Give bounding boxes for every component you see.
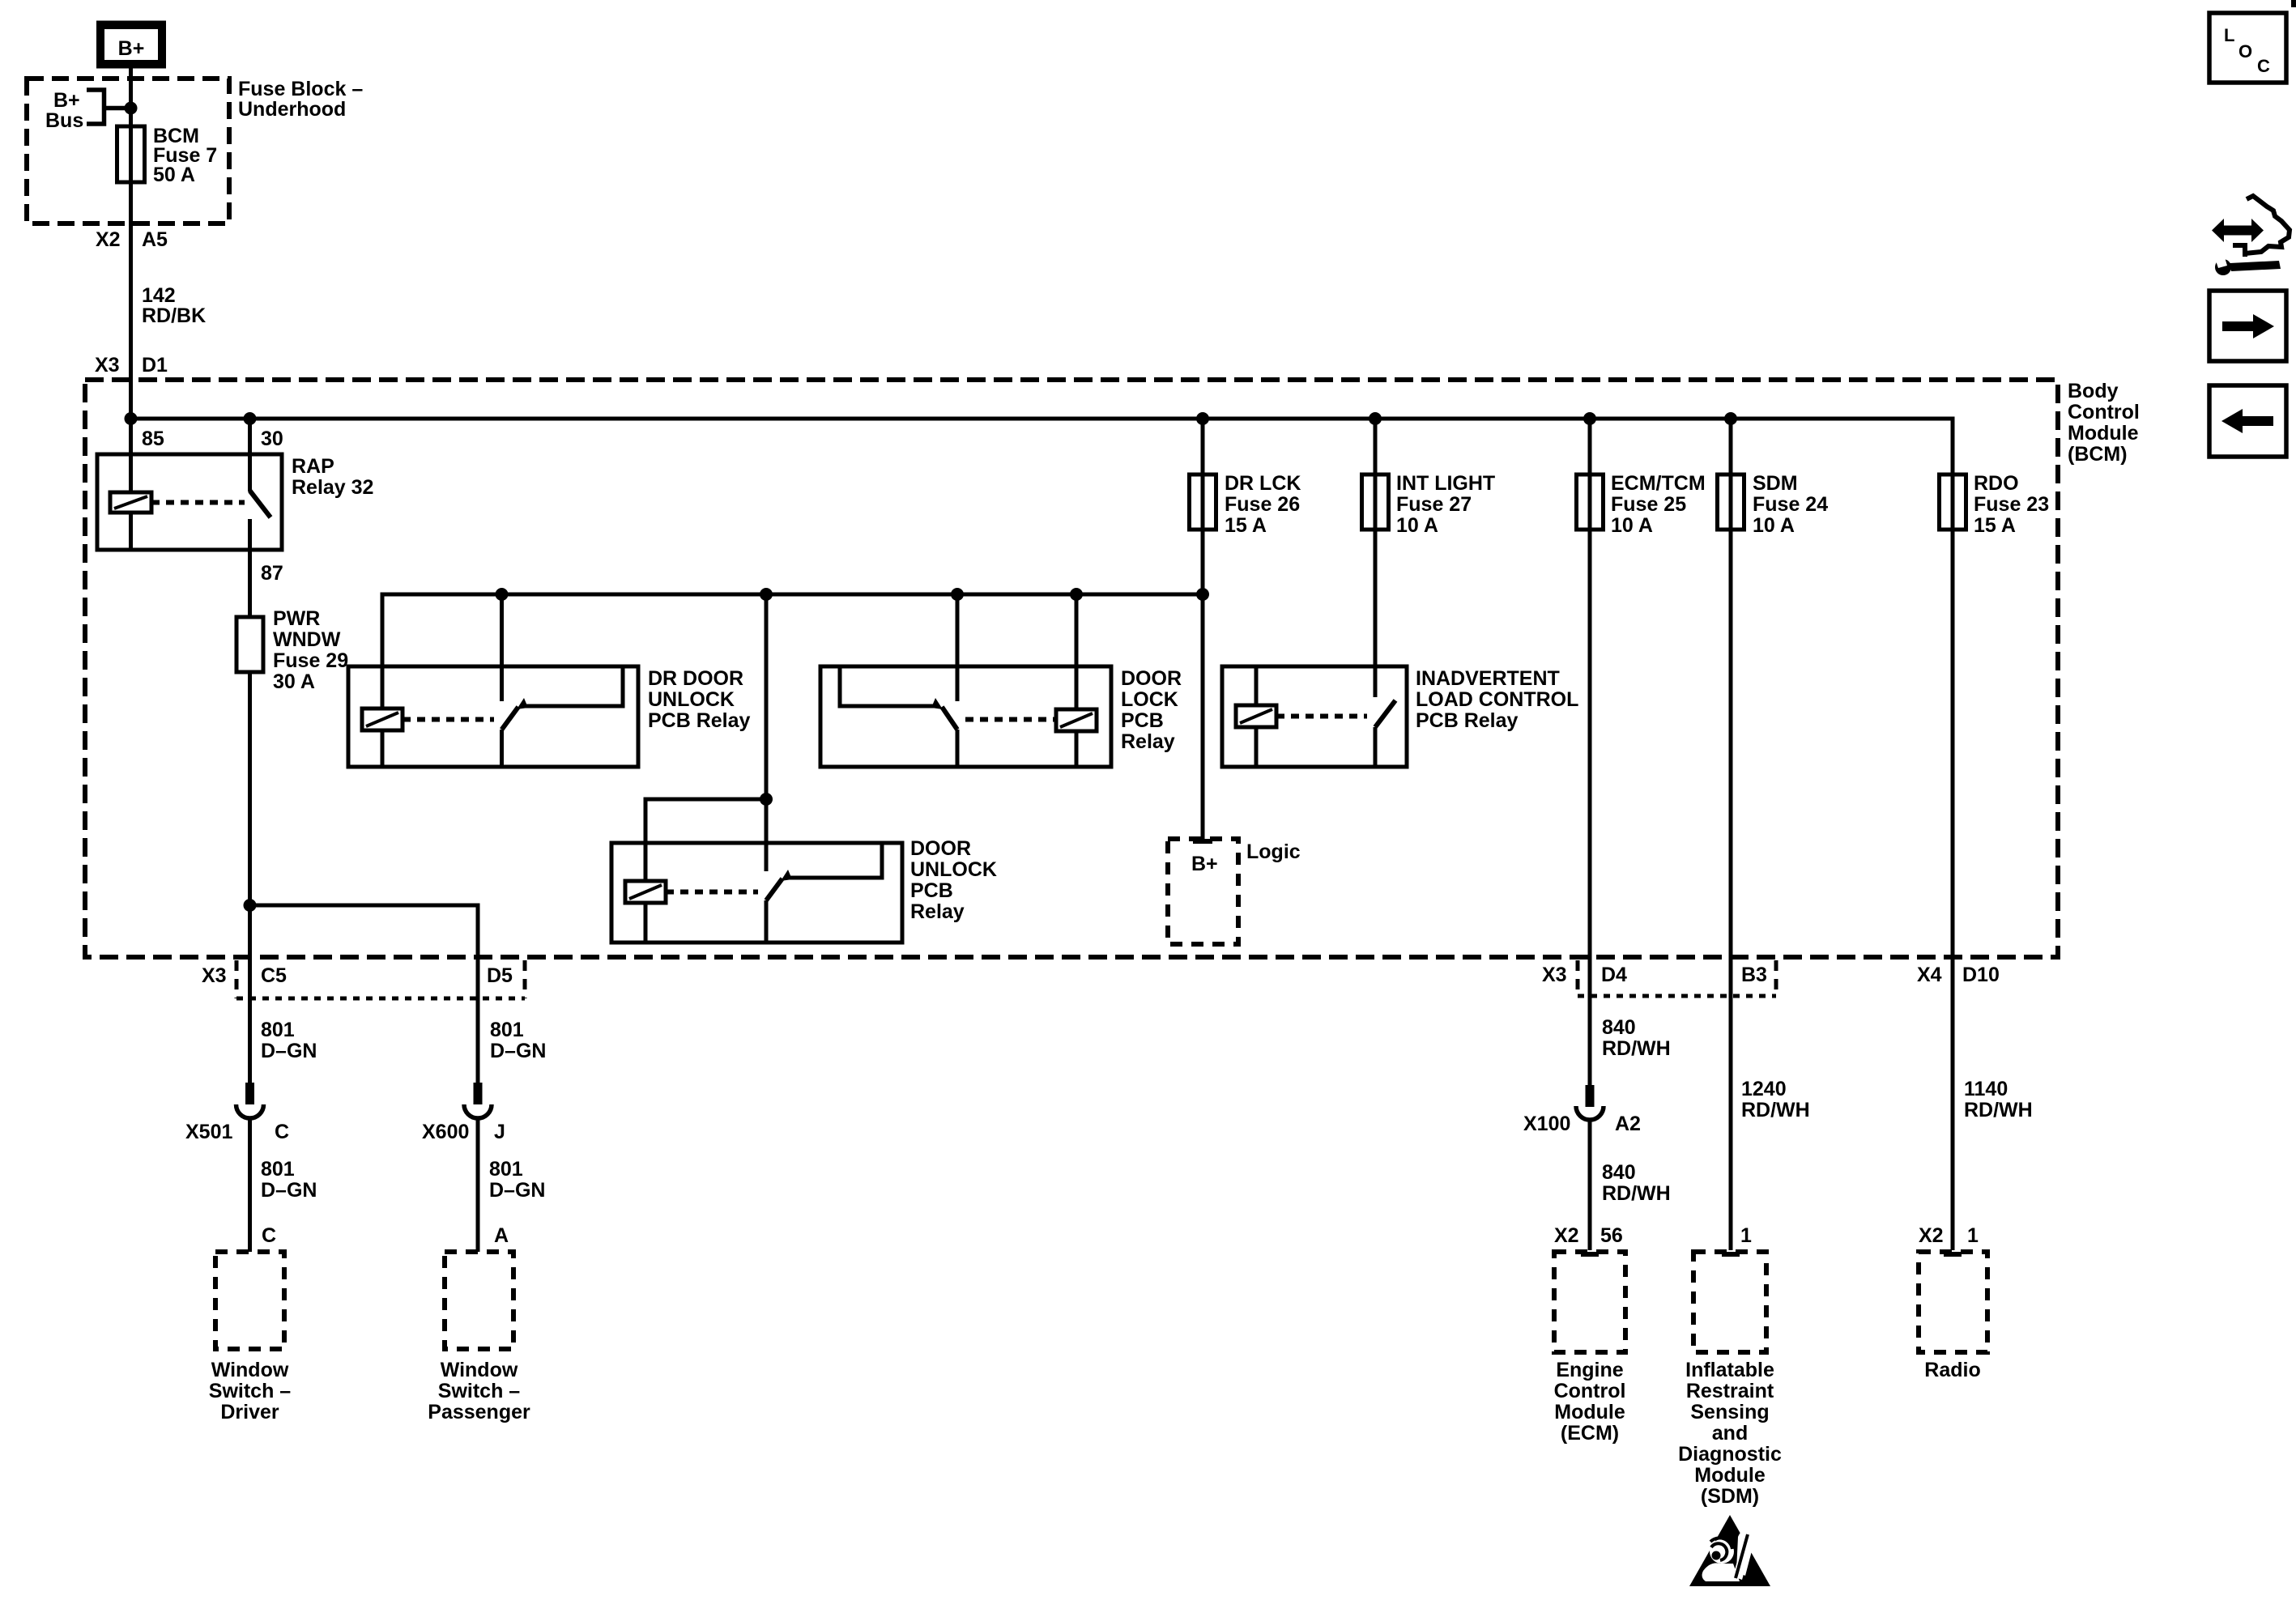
svg-text:Window: Window [211,1359,289,1381]
wire elbow to DOOR UNLOCK coil [645,799,766,881]
wire 142 RD/BK label [142,284,206,327]
node B+ Bus bracket [45,89,131,132]
relay K4 DOOR UNLOCK PCB Relay [611,837,997,943]
coil of DOOR LOCK relay [1056,594,1097,767]
svg-text:Switch –: Switch – [209,1380,292,1402]
svg-text:D10: D10 [1962,964,2000,986]
switch blade with arrow DOOR LOCK [931,698,957,730]
junction split to D5 [244,899,257,912]
svg-text:1: 1 [1740,1224,1752,1247]
svg-text:D4: D4 [1601,964,1627,986]
svg-text:LOCK: LOCK [1121,688,1178,711]
svg-text:X2: X2 [1919,1224,1944,1247]
svg-text:C: C [2257,56,2270,76]
coil of DOOR UNLOCK relay [625,881,666,943]
svg-text:DR LCK: DR LCK [1225,472,1301,495]
inline connector X501 pin C [185,1083,289,1143]
dashed actuation link DR DOOR UNLOCK [403,717,494,722]
svg-text:56: 56 [1600,1224,1623,1247]
svg-text:PCB: PCB [910,879,953,902]
pin 30 wire into RAP switch [250,419,283,491]
svg-text:142: 142 [142,284,176,307]
svg-text:Relay 32: Relay 32 [292,476,373,499]
svg-text:DR DOOR: DR DOOR [648,667,743,690]
switch contact wire DR DOOR UNLOCK [500,594,504,701]
svg-text:Restraint: Restraint [1686,1380,1774,1402]
wire 801 D-GN passenger label [490,1019,546,1062]
icon arrow previous box [2209,385,2286,457]
svg-text:O: O [2238,41,2252,62]
coil of RAP relay [110,492,151,550]
svg-text:840: 840 [1602,1016,1636,1039]
fuse block underhood dashed box [27,78,363,223]
svg-text:RD/WH: RD/WH [1602,1037,1671,1060]
wire 1240 RD/WH label [1740,1078,1810,1247]
svg-text:1: 1 [1967,1224,1979,1247]
warning symbol SIR airbag triangle [1689,1515,1770,1586]
junction bus at ECM/TCM fuse [1583,412,1596,425]
coil of DR DOOR UNLOCK relay [362,709,403,767]
wire 840 RD/WH upper label [1602,1016,1671,1060]
module box Body Control Module BCM dashed outline [85,380,2140,957]
switch blade with arrow DR DOOR UNLOCK [502,698,529,730]
svg-text:Bus: Bus [45,109,83,132]
svg-text:(ECM): (ECM) [1561,1422,1619,1445]
fuse F24 SDM Fuse 24 10 A [1718,419,1829,1250]
svg-text:Control: Control [2068,401,2140,423]
svg-text:Inflatable: Inflatable [1685,1359,1774,1381]
svg-text:Fuse 26: Fuse 26 [1225,493,1300,516]
junction bus at 85 feed [125,412,138,425]
pin labels X2 A5 [96,228,168,251]
svg-text:PWR: PWR [273,607,320,630]
inline connector X600 pin J [422,1083,505,1143]
svg-text:Fuse 24: Fuse 24 [1753,493,1828,516]
power symbol B+ terminal box [96,21,166,69]
node B+ Logic dashed box [1168,839,1301,944]
svg-text:DOOR: DOOR [910,837,971,860]
svg-text:INT LIGHT: INT LIGHT [1396,472,1495,495]
pin 87 wire out of RAP [250,519,283,617]
wire 840 RD/WH lower label [1590,1120,1671,1250]
svg-text:Sensing: Sensing [1690,1401,1769,1423]
svg-text:DOOR: DOOR [1121,667,1182,690]
svg-text:840: 840 [1602,1161,1636,1184]
svg-text:B3: B3 [1741,964,1767,986]
svg-text:1240: 1240 [1741,1078,1787,1100]
svg-text:Module: Module [2068,422,2139,445]
svg-text:Radio: Radio [1924,1359,1980,1381]
svg-text:ECM/TCM: ECM/TCM [1611,472,1706,495]
relay K2 DOOR LOCK PCB Relay [820,666,1182,767]
svg-text:D–GN: D–GN [490,1040,546,1062]
fuse F7 BCM Fuse 7 50 A [117,125,218,186]
svg-text:A: A [494,1224,509,1247]
switch blade RAP [250,491,271,517]
svg-text:85: 85 [142,428,164,450]
junction sub-bus at DR LCK wire [1196,588,1209,601]
wire to window switch passenger [478,1118,545,1252]
svg-text:D–GN: D–GN [261,1040,317,1062]
svg-text:Driver: Driver [220,1401,279,1423]
svg-text:Relay: Relay [910,900,965,923]
svg-text:RD/BK: RD/BK [142,304,206,327]
svg-text:10 A: 10 A [1753,514,1795,537]
icon adjustable component hand wrench [2212,196,2290,275]
svg-text:X600: X600 [422,1121,469,1143]
svg-text:and: and [1712,1422,1748,1445]
junction sub-bus DOOR LOCK switch [951,588,964,601]
svg-text:WNDW: WNDW [273,628,341,651]
fuse F23 RDO Fuse 23 15 A [1940,417,2050,1251]
svg-text:A5: A5 [142,228,168,251]
svg-text:(BCM): (BCM) [2068,443,2128,466]
svg-text:Module: Module [1694,1464,1766,1487]
junction bus at INT LIGHT fuse [1369,412,1382,425]
fuse F29 PWR WNDW Fuse 29 30 A [236,607,348,693]
component Engine Control Module ECM dashed box [1554,1252,1626,1445]
wire 801 D-GN driver label [261,1019,317,1062]
svg-text:Diagnostic: Diagnostic [1678,1443,1782,1466]
svg-text:50 A: 50 A [153,164,195,186]
svg-text:D–GN: D–GN [489,1179,545,1202]
pivot wire down DR DOOR UNLOCK [500,730,504,767]
relay K1 DR DOOR UNLOCK PCB Relay [348,666,751,767]
fuse F25 ECM/TCM Fuse 25 10 A [1577,419,1706,1085]
pivot wire down DOOR LOCK [956,730,960,767]
svg-text:INADVERTENT: INADVERTENT [1416,667,1560,690]
svg-text:D–GN: D–GN [261,1179,317,1202]
svg-text:X3: X3 [202,964,227,987]
svg-text:J: J [494,1121,505,1143]
junction sub-bus DR DOOR switch [496,588,509,601]
component Window Switch Driver dashed box [209,1252,292,1423]
svg-text:X501: X501 [185,1121,232,1143]
svg-text:X2: X2 [96,228,121,251]
icon arrow next box [2209,291,2286,361]
fuse F27 INT LIGHT Fuse 27 10 A [1362,419,1496,697]
connector labels X4 D10 [1917,964,2000,986]
coil of INADVERTENT relay [1236,666,1276,766]
svg-text:C5: C5 [261,964,287,987]
wire fuse29 down to C5 [248,672,252,1083]
svg-text:RD/WH: RD/WH [1602,1182,1671,1205]
svg-text:801: 801 [490,1019,524,1041]
svg-text:B+: B+ [53,89,80,112]
wire B+ down through fuse block [129,68,133,419]
svg-text:15 A: 15 A [1225,514,1267,537]
svg-text:Window: Window [441,1359,518,1381]
pivot wire down DOOR UNLOCK [765,900,769,943]
switch contact wire DOOR LOCK [956,594,960,701]
relay K3 INADVERTENT LOAD CONTROL PCB Relay [1222,666,1578,767]
svg-text:SDM: SDM [1753,472,1798,495]
dashed actuation link RAP [151,500,245,505]
pin labels X2 1 radio [1919,1224,1979,1247]
svg-text:10 A: 10 A [1611,514,1653,537]
junction sub-bus DOOR LOCK coil [1070,588,1083,601]
fuse F26 DR LCK Fuse 26 15 A [1190,419,1301,594]
wire relay sub-bus [382,594,1203,709]
wire 1140 RD/WH label [1964,1078,2033,1121]
svg-text:L: L [2224,25,2234,45]
junction DOOR UNLOCK feed elbow [760,793,773,806]
page corner mark [2291,0,2296,7]
svg-text:Fuse 23: Fuse 23 [1974,493,2049,516]
inline connector X100 pin A2 [1523,1085,1641,1135]
svg-text:Engine: Engine [1556,1359,1623,1381]
wire elbow to D5 drop [250,905,479,1083]
svg-text:Fuse 29: Fuse 29 [273,649,348,672]
svg-text:30 A: 30 A [273,670,315,693]
svg-text:87: 87 [261,562,283,585]
svg-text:UNLOCK: UNLOCK [910,858,997,881]
switch output elbow DOOR LOCK [840,668,939,706]
svg-text:801: 801 [489,1158,523,1181]
switch blade INADVERTENT [1375,700,1395,766]
svg-text:801: 801 [261,1158,295,1181]
wire DR LCK feed to logic [1201,594,1205,840]
svg-text:Passenger: Passenger [428,1401,530,1423]
svg-text:C: C [275,1121,289,1143]
dashed actuation link DOOR UNLOCK [666,890,758,895]
svg-text:X100: X100 [1523,1113,1570,1135]
switch output elbow DOOR UNLOCK [786,845,882,878]
junction bus at DR LCK fuse [1196,412,1209,425]
svg-text:X3: X3 [95,354,120,377]
svg-text:X3: X3 [1542,964,1567,986]
wire main bus inside BCM [131,417,1953,421]
junction bus at 30 feed [244,412,257,425]
svg-text:PCB Relay: PCB Relay [1416,709,1519,732]
switch blade with arrow DOOR UNLOCK [766,870,792,900]
pin labels X3 D1 [95,354,168,377]
component Window Switch Passenger dashed box [428,1252,530,1423]
svg-text:PCB: PCB [1121,709,1164,732]
svg-text:LOAD CONTROL: LOAD CONTROL [1416,688,1578,711]
svg-text:B+: B+ [118,37,145,60]
connector row X3 D4 B3 [1542,960,1776,996]
svg-text:X4: X4 [1917,964,1942,986]
connector row X3 C5 D5 [202,960,525,998]
svg-text:D1: D1 [142,354,168,377]
svg-text:Module: Module [1554,1401,1625,1423]
svg-text:Fuse 27: Fuse 27 [1396,493,1472,516]
icon LOC reference box [2209,13,2286,83]
svg-text:Underhood: Underhood [238,98,346,121]
junction bus at SDM fuse [1724,412,1737,425]
component Radio dashed box [1919,1252,1987,1381]
svg-text:801: 801 [261,1019,295,1041]
svg-text:A2: A2 [1615,1113,1641,1135]
svg-text:Relay: Relay [1121,730,1175,753]
svg-text:RDO: RDO [1974,472,2019,495]
svg-text:Switch –: Switch – [438,1380,521,1402]
wire drop to DOOR UNLOCK relay [765,594,769,871]
svg-text:Logic: Logic [1246,840,1301,863]
svg-text:10 A: 10 A [1396,514,1438,537]
svg-text:30: 30 [261,428,283,450]
junction B+ bus tap [125,102,138,115]
svg-text:D5: D5 [487,964,513,987]
dashed actuation link INADVERTENT [1276,714,1367,719]
switch output elbow DR DOOR UNLOCK [522,668,623,706]
component Inflatable Restraint SDM dashed box [1678,1252,1782,1508]
svg-text:X2: X2 [1554,1224,1579,1247]
svg-text:RD/WH: RD/WH [1964,1099,2033,1121]
pin labels X2 56 [1554,1224,1623,1247]
svg-text:RD/WH: RD/WH [1741,1099,1810,1121]
svg-text:(SDM): (SDM) [1701,1485,1759,1508]
svg-text:1140: 1140 [1964,1078,2008,1100]
svg-text:PCB Relay: PCB Relay [648,709,751,732]
pin 85 wire into RAP coil [131,419,164,492]
relay K32 RAP Relay 32 [97,454,373,550]
wire to window switch driver [250,1118,317,1252]
svg-text:UNLOCK: UNLOCK [648,688,735,711]
svg-text:15 A: 15 A [1974,514,2016,537]
svg-text:RAP: RAP [292,455,334,478]
svg-text:Fuse 25: Fuse 25 [1611,493,1686,516]
svg-text:Control: Control [1554,1380,1626,1402]
dashed actuation link DOOR LOCK [965,717,1054,722]
svg-text:C: C [262,1224,276,1247]
svg-text:B+: B+ [1191,853,1218,875]
junction sub-bus DOOR UNLOCK drop [760,588,773,601]
svg-text:Fuse Block –: Fuse Block – [238,78,363,100]
svg-text:Body: Body [2068,380,2119,402]
